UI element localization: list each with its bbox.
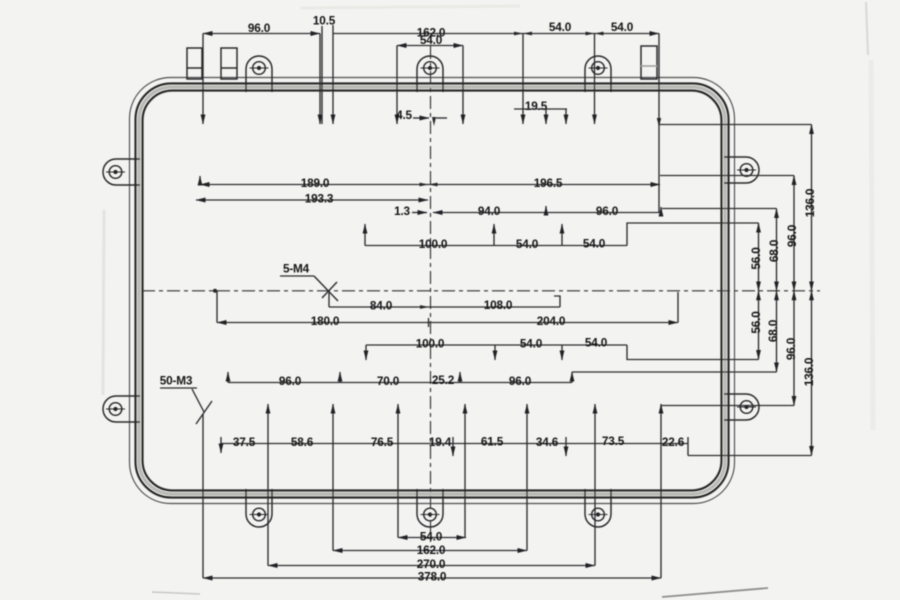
row D stub x562 up xyxy=(561,224,563,246)
left mounting ear 1 xyxy=(103,159,140,185)
svg-text:4.5: 4.5 xyxy=(396,108,412,122)
dim row D line 100.0 / 54.0 / 54.0 xyxy=(365,245,627,247)
vertical centerline xyxy=(430,46,432,545)
row F mid tick xyxy=(428,318,430,327)
19.5 extension x566 xyxy=(565,109,567,124)
right dim vertical 96.0 bottom xyxy=(793,291,795,406)
dim 162.0 bottom xyxy=(333,550,527,552)
dim 54.0 top a xyxy=(523,33,595,35)
scan artifact bottom left dots xyxy=(152,592,200,594)
svg-text:56.0: 56.0 xyxy=(749,311,763,334)
svg-text:378.0: 378.0 xyxy=(418,570,447,584)
dim 180.0 / 204.0 row line xyxy=(217,322,678,324)
row H stub x572 joins 68 connector xyxy=(571,372,573,383)
top boss block 2 xyxy=(221,48,237,79)
connector 68 bottom y372 xyxy=(572,371,777,373)
top mounting ear 3 xyxy=(585,56,611,92)
row G stub x366 down xyxy=(365,345,367,360)
svg-text:54.0: 54.0 xyxy=(549,20,572,34)
svg-text:61.5: 61.5 xyxy=(481,435,504,449)
dim 189.0 / 196.5 row line xyxy=(200,184,660,186)
row D stub x365 up xyxy=(364,224,366,246)
svg-text:54.0: 54.0 xyxy=(585,336,608,350)
svg-text:54.0: 54.0 xyxy=(520,337,543,351)
right dim vertical 136.0 bottom xyxy=(811,291,813,456)
svg-text:136.0: 136.0 xyxy=(802,357,816,386)
svg-text:25.2: 25.2 xyxy=(432,373,455,387)
extension line x594.5 xyxy=(594,34,596,125)
hole axis line x333 xyxy=(332,404,334,551)
right dim vertical 136.0 top xyxy=(811,125,813,291)
svg-text:73.5: 73.5 xyxy=(602,434,625,448)
hole axis line x527 xyxy=(526,404,528,551)
extension line x659 right chain xyxy=(658,34,660,213)
19.5 extension x546 xyxy=(545,109,547,124)
row G stub x495 down xyxy=(494,345,496,360)
dim 54.0 bottom xyxy=(398,537,466,539)
svg-text:108.0: 108.0 xyxy=(484,298,513,312)
horizontal centerline xyxy=(142,290,820,292)
row I right bracket x688 joins 136 connector xyxy=(687,437,689,456)
hole axis line x268 xyxy=(267,404,269,566)
ear bracket extension x463 xyxy=(462,46,464,125)
dim 193.3 line xyxy=(196,199,428,201)
scan artifact top right xyxy=(866,2,868,55)
top boss block 1 xyxy=(187,48,202,79)
svg-text:10.5: 10.5 xyxy=(313,14,336,28)
extension line x523 xyxy=(522,34,524,125)
top boss block 3 xyxy=(641,46,657,79)
connector 68 top y208.5 xyxy=(662,208,777,210)
dim 378.0 bottom xyxy=(203,577,661,579)
row B left stub arrow xyxy=(199,176,201,185)
bottom mounting ear 3 xyxy=(585,489,611,527)
row C end arrow x661 xyxy=(660,207,662,213)
svg-text:54.0: 54.0 xyxy=(420,530,443,544)
row H stub x460 xyxy=(459,372,461,383)
svg-text:37.5: 37.5 xyxy=(233,435,256,449)
dim 84.0 / 108.0 row line xyxy=(329,306,560,308)
dim row I chained line xyxy=(221,443,688,445)
svg-text:70.0: 70.0 xyxy=(377,374,400,388)
enclosure inner wall line 2 xyxy=(143,91,722,491)
50-M3 slash tick xyxy=(196,401,212,424)
row I left bracket x221 xyxy=(220,437,222,453)
right dim vertical 96.0 top xyxy=(793,176,795,291)
bottom mounting ear 1 xyxy=(246,489,272,527)
right mounting ear 2 xyxy=(724,394,759,420)
hole axis line x595 xyxy=(594,404,596,566)
dim 54.0 ear bracket line xyxy=(397,45,463,47)
connector 96 top y175.5 xyxy=(660,175,794,177)
arrow pair at 594.5 xyxy=(586,32,604,36)
top mounting ear 1 xyxy=(246,56,272,92)
hole axis line x661 xyxy=(660,404,662,578)
right dim vertical 56.0 bottom xyxy=(758,291,760,360)
connector 96 bottom y405.5 xyxy=(661,405,794,407)
extension line x333 xyxy=(332,25,334,124)
svg-text:19.4: 19.4 xyxy=(429,435,452,449)
svg-text:34.6: 34.6 xyxy=(536,435,559,449)
row E left stub xyxy=(328,292,330,307)
scan artifact right margin streak xyxy=(871,60,873,430)
svg-text:1.3: 1.3 xyxy=(394,204,410,218)
svg-text:56.0: 56.0 xyxy=(749,247,763,270)
right dim vertical 56.0 top xyxy=(758,223,760,291)
50-M3 leader xyxy=(192,389,204,412)
svg-text:96.0: 96.0 xyxy=(596,204,619,218)
row E mid arrow xyxy=(420,305,429,309)
svg-text:54.0: 54.0 xyxy=(516,237,539,251)
enclosure gray groove band xyxy=(139,87,725,494)
right dim vertical 68.0 top xyxy=(776,209,778,291)
svg-text:5-M4: 5-M4 xyxy=(283,262,310,276)
bottom mounting ear 2 xyxy=(417,489,443,527)
dim row H line 96.0 / 70.0 / 25.2 / 96.0 xyxy=(228,382,572,384)
svg-text:204.0: 204.0 xyxy=(537,314,566,328)
enclosure inner wall line 1 xyxy=(136,84,729,498)
svg-text:58.6: 58.6 xyxy=(291,435,314,449)
dim row C line 94.0 / 96.0 xyxy=(433,212,661,214)
connector 136 bottom y455.5 xyxy=(688,455,812,457)
scan artifact left margin streak xyxy=(103,210,104,395)
extension line x320 xyxy=(319,34,321,125)
scan artifact top smear xyxy=(300,6,520,8)
5-M4 leader xyxy=(314,276,338,301)
svg-text:84.0: 84.0 xyxy=(370,299,393,313)
junction dot on centerline xyxy=(213,289,217,293)
row D corner to 56.0 connector xyxy=(627,223,759,246)
row I stub x566 xyxy=(565,437,567,456)
center extension arrow x434 xyxy=(432,117,436,126)
row E right stub xyxy=(554,296,560,307)
row I stub x453 xyxy=(452,437,454,456)
dim 162.0 line xyxy=(333,33,523,35)
right dim vertical 68.0 bottom xyxy=(776,291,778,372)
row G corner to 56.0 bottom connector xyxy=(627,345,759,360)
svg-text:196.5: 196.5 xyxy=(534,176,563,190)
ear bracket extension x397 xyxy=(396,46,398,125)
svg-text:68.0: 68.0 xyxy=(766,319,780,342)
row F left stub xyxy=(216,291,218,323)
scan artifact bottom right xyxy=(662,588,768,597)
row H stub x340 xyxy=(339,372,341,383)
svg-text:96.0: 96.0 xyxy=(279,374,302,388)
dim 96.0 top line xyxy=(203,33,320,35)
5-M4 cross tick xyxy=(322,282,337,298)
svg-text:68.0: 68.0 xyxy=(767,239,781,262)
svg-text:76.5: 76.5 xyxy=(371,435,394,449)
svg-text:94.0: 94.0 xyxy=(478,204,501,218)
dim row G line 100.0 / 54.0 / 54.0 xyxy=(366,344,627,346)
hole axis line x465 xyxy=(464,404,466,538)
right mounting ear 1 xyxy=(724,157,759,183)
svg-text:180.0: 180.0 xyxy=(311,314,340,328)
svg-text:96.0: 96.0 xyxy=(248,21,271,35)
svg-text:96.0: 96.0 xyxy=(784,337,798,360)
svg-text:193.3: 193.3 xyxy=(305,192,334,206)
row F right stub xyxy=(677,292,679,323)
svg-text:189.0: 189.0 xyxy=(301,176,330,190)
svg-text:96.0: 96.0 xyxy=(509,374,532,388)
top mounting ear 2 xyxy=(417,56,443,92)
svg-text:54.0: 54.0 xyxy=(420,33,443,47)
svg-text:100.0: 100.0 xyxy=(419,237,448,251)
svg-text:100.0: 100.0 xyxy=(416,337,445,351)
row G stub x562 down xyxy=(561,345,563,360)
left mounting ear 2 xyxy=(103,396,140,422)
row C tick x546 xyxy=(545,206,547,213)
svg-text:162.0: 162.0 xyxy=(417,543,446,557)
svg-text:136.0: 136.0 xyxy=(803,188,817,217)
svg-text:96.0: 96.0 xyxy=(785,224,799,247)
dim 54.0 top b xyxy=(595,33,660,35)
hole axis line x398 xyxy=(397,404,399,538)
dim 270.0 bottom xyxy=(268,565,595,567)
connector 136 top y124.5 xyxy=(659,124,812,126)
extension from 50-M3 slash x203 xyxy=(202,414,204,578)
svg-text:19.5: 19.5 xyxy=(525,99,548,113)
svg-text:22.6: 22.6 xyxy=(662,435,685,449)
mid arrows at centerline row B xyxy=(420,183,438,187)
svg-text:50-M3: 50-M3 xyxy=(160,374,193,388)
extension line x203 xyxy=(202,34,204,125)
row H stub x228 xyxy=(227,372,229,383)
svg-text:54.0: 54.0 xyxy=(611,20,634,34)
svg-text:54.0: 54.0 xyxy=(583,237,606,251)
row D stub x494 up xyxy=(493,224,495,246)
enclosure outer outline xyxy=(130,78,735,504)
